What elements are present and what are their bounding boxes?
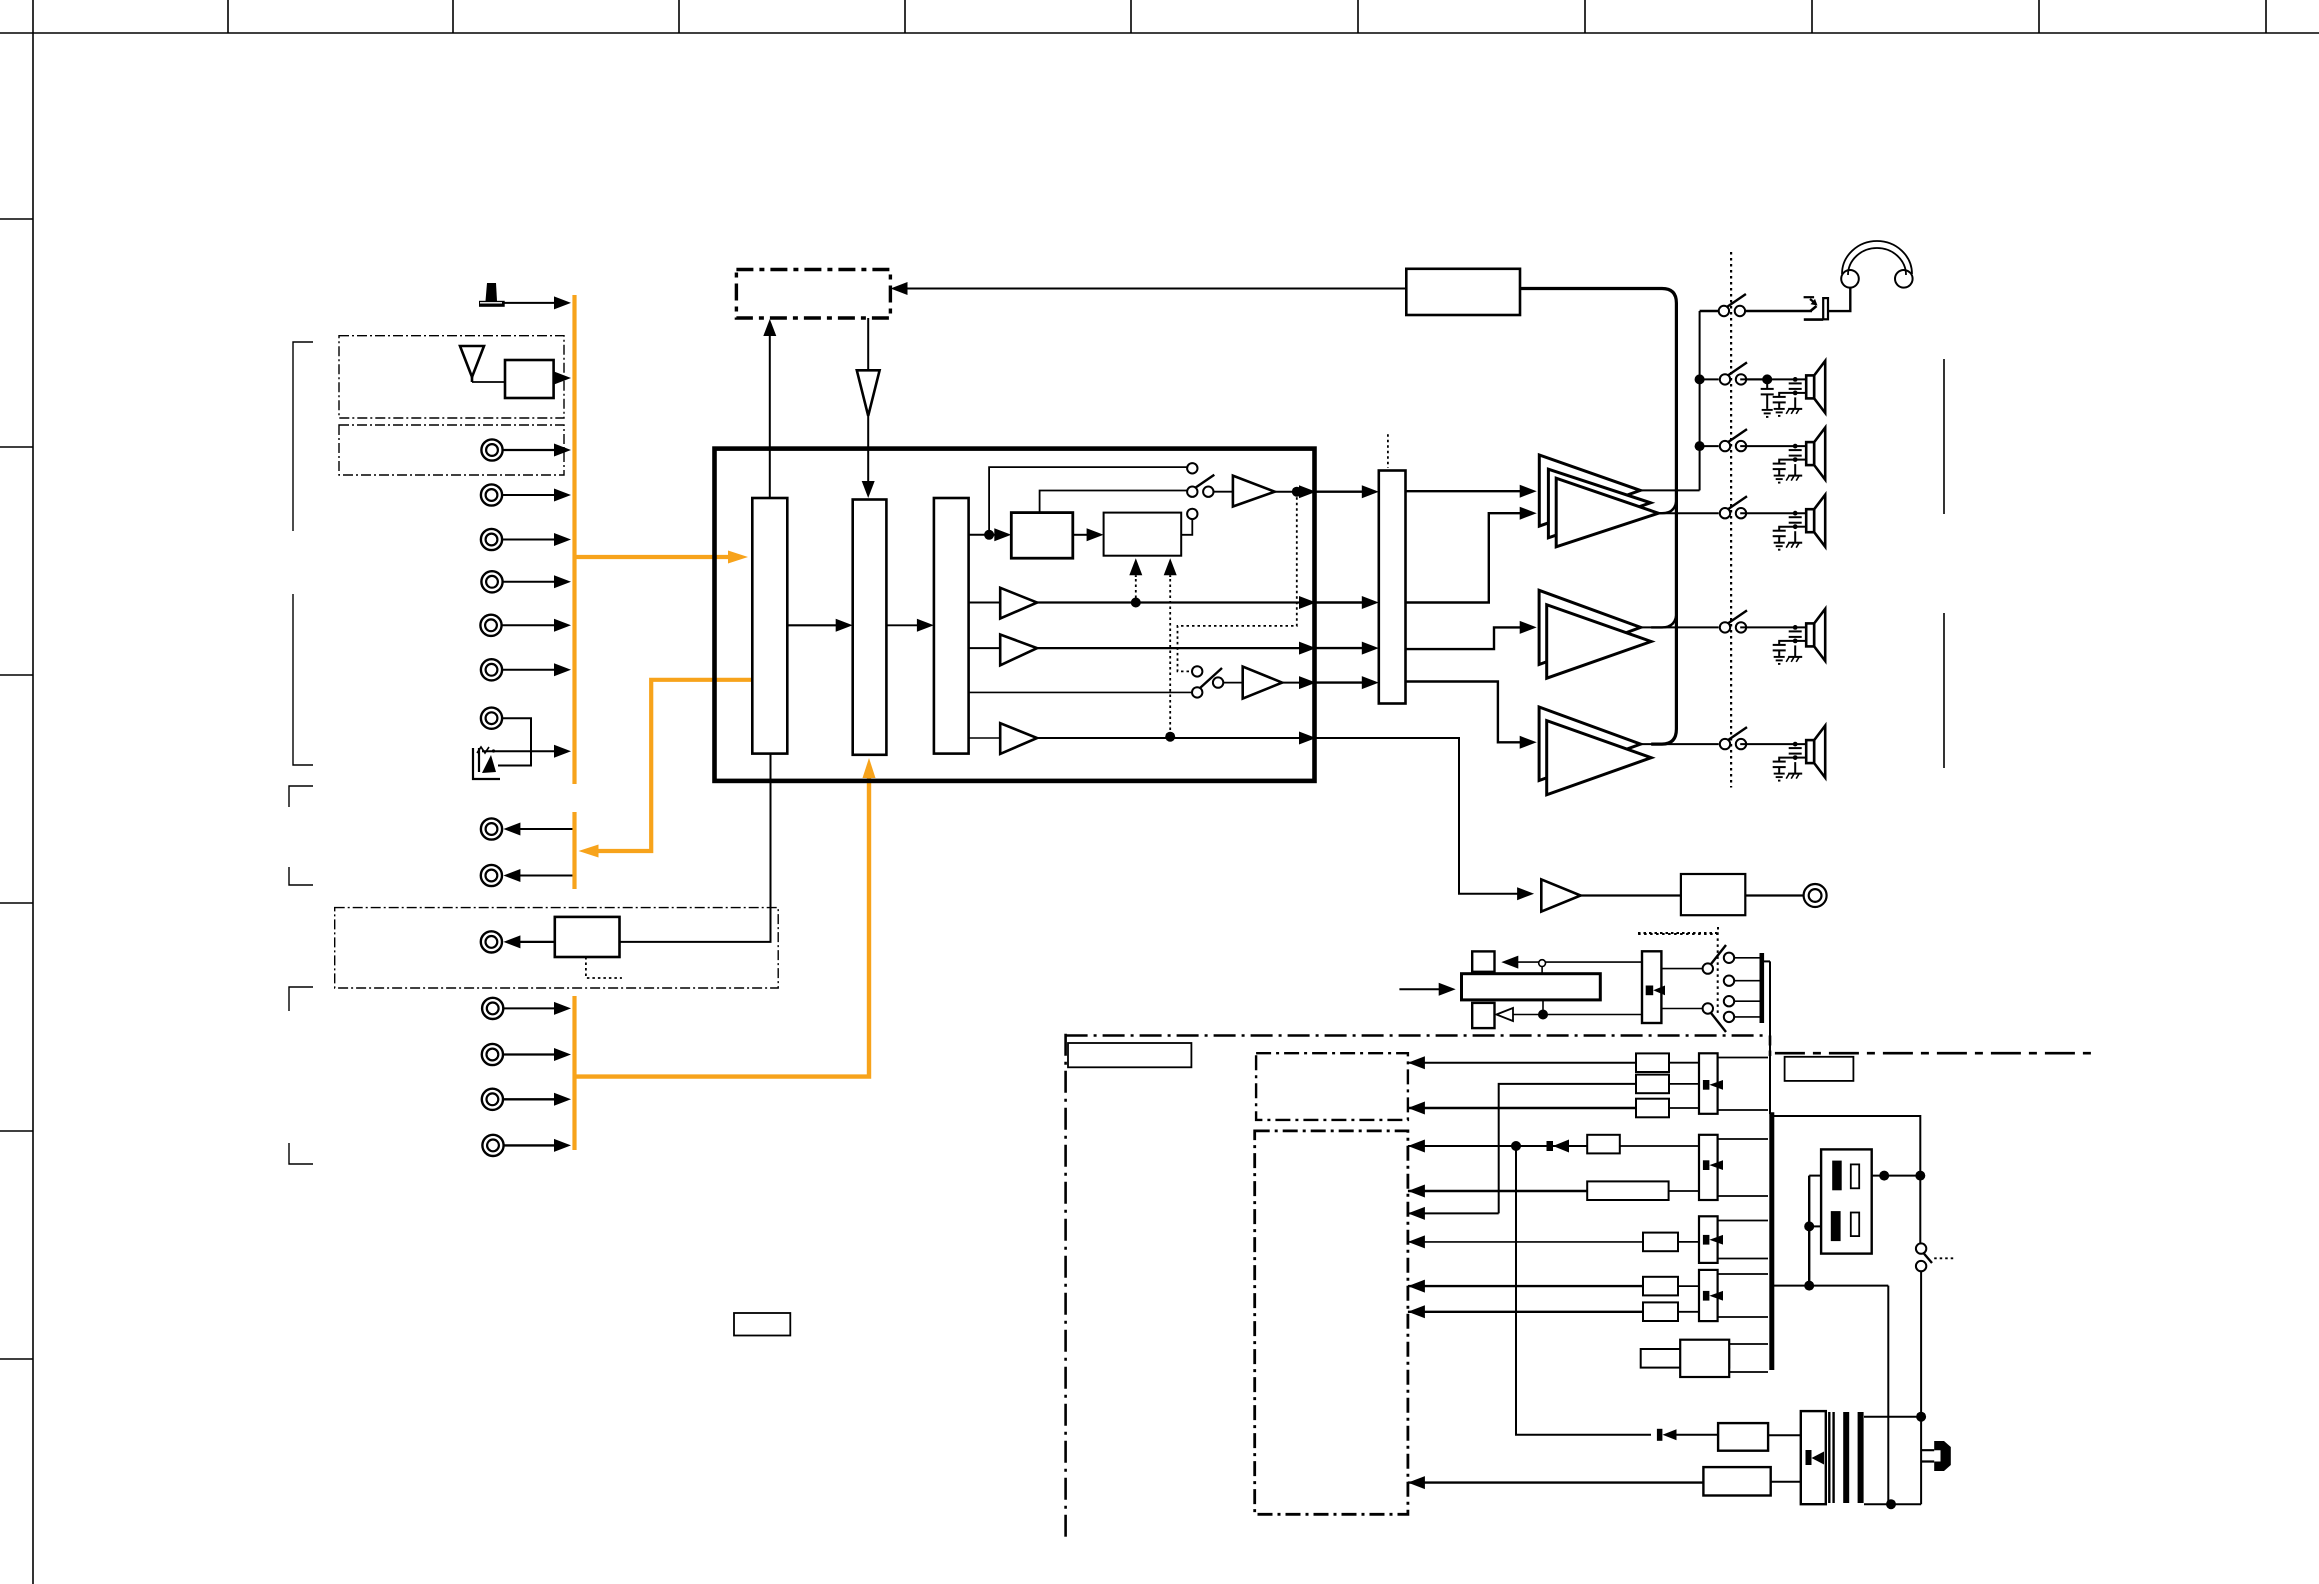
row G bbox=[1408, 1277, 1699, 1296]
transformer secondary loop bbox=[1864, 1417, 1921, 1505]
winding F bbox=[1718, 1221, 1768, 1259]
key square bbox=[1472, 1003, 1494, 1028]
bus merge amp2 bbox=[1651, 612, 1676, 627]
bridge left vertical bbox=[1808, 1176, 1810, 1286]
SECTION: speaker outputs bbox=[1641, 359, 1944, 781]
dotted stub under lpf bbox=[1638, 932, 1718, 934]
buffer ch1 bbox=[1233, 476, 1275, 507]
dash-dot box main supply bbox=[1255, 1131, 1408, 1514]
transformer diode bbox=[1806, 1450, 1825, 1465]
wire to display square bbox=[1516, 961, 1642, 963]
relay surround back speaker bbox=[1720, 727, 1747, 749]
tick top 2 bbox=[452, 0, 454, 33]
decoder block A bbox=[1011, 513, 1073, 559]
secondary bus bar bbox=[1769, 1112, 1774, 1370]
tick left 3 bbox=[0, 674, 33, 676]
wire node up to bypass contact bbox=[989, 467, 1187, 535]
bracket group 4 top bbox=[289, 987, 313, 1011]
remote switch 1 bbox=[1703, 963, 1713, 973]
wire vol out 4 to amp3 bbox=[1406, 682, 1522, 743]
wire to surround relay bbox=[1641, 626, 1719, 628]
speaker network center bbox=[1740, 495, 1825, 550]
wire sw from dsp bbox=[1316, 738, 1521, 894]
wire buffer to lpf bbox=[1581, 894, 1681, 896]
switch2 bbox=[1192, 687, 1202, 697]
speaker feedback bus bbox=[1520, 289, 1676, 745]
dotted bypass path bbox=[1178, 492, 1297, 672]
bracket group 4 bottom bbox=[289, 1143, 313, 1164]
wire switch2 to buffer C bbox=[1223, 682, 1242, 684]
psu boundary top bbox=[1066, 1034, 1768, 1037]
psu boundary right bbox=[1775, 1052, 2095, 1055]
wire buffer1 to out bbox=[1275, 491, 1316, 493]
arrows into blockB bottom bbox=[1129, 558, 1142, 575]
border top bbox=[0, 32, 2319, 34]
psu label box bbox=[1068, 1043, 1191, 1067]
headphone symbol bbox=[1841, 241, 1912, 288]
dash-dot box tuner lower bbox=[339, 425, 564, 475]
tape-head symbol bbox=[473, 747, 500, 779]
tuner block bbox=[505, 360, 554, 398]
lpf block bbox=[1681, 874, 1745, 915]
psu label box right bbox=[1785, 1057, 1854, 1081]
row E bbox=[1408, 1207, 1499, 1220]
hp switch bbox=[1719, 294, 1746, 316]
wire C to volume block bbox=[1316, 676, 1379, 689]
relay surround speaker bbox=[1720, 610, 1747, 632]
wire phono block to selector riser bbox=[620, 754, 771, 942]
SECTION: speaker bus + protection bbox=[1406, 252, 1731, 788]
SECTION: display / system top bbox=[736, 270, 1406, 499]
wire display box down to volume bar bbox=[867, 318, 869, 370]
row C bbox=[1408, 1135, 1699, 1154]
switch2 upper contact bbox=[1192, 666, 1202, 676]
relay center speaker bbox=[1720, 496, 1747, 518]
diode primary feed bbox=[1657, 1429, 1677, 1441]
tick top 1 bbox=[227, 0, 229, 33]
heater block pair bbox=[1641, 1349, 1730, 1368]
row D bbox=[1408, 1181, 1699, 1200]
wire vol out 1 to amp1 bbox=[1406, 490, 1522, 492]
orange wire main into selector bbox=[576, 555, 733, 559]
diode CD bbox=[1703, 1160, 1723, 1170]
wire from protection to display box bbox=[906, 288, 1406, 290]
wire bar top to bridge bbox=[1772, 1116, 1921, 1176]
wire tape to bus bbox=[482, 750, 556, 752]
diode AB bbox=[1703, 1080, 1723, 1090]
dotted mute control line bbox=[1730, 252, 1732, 788]
sw out jack bbox=[1804, 884, 1827, 907]
tick left 4 bbox=[0, 902, 33, 904]
relay speakers B bbox=[1720, 429, 1747, 451]
row F bbox=[1408, 1233, 1699, 1252]
speaker network B bbox=[1740, 428, 1825, 483]
SECTION: orange bus bbox=[575, 295, 870, 1150]
node after buffer1 bbox=[1292, 487, 1302, 497]
wire lpf to jack bbox=[1745, 894, 1803, 896]
dotted control to blockB right bbox=[1169, 579, 1171, 737]
wire C node down to primary feed bbox=[1516, 1146, 1651, 1435]
contact bus bar bbox=[1760, 953, 1765, 1023]
jack line in 2 bbox=[481, 484, 502, 505]
wire L to volume block bbox=[1316, 596, 1379, 609]
wire switch to hp jack bbox=[1744, 310, 1812, 312]
winding GH bbox=[1718, 1274, 1768, 1317]
orange arrow into dsp bbox=[863, 758, 876, 778]
tick left 6 bbox=[0, 1358, 33, 1360]
node key row bbox=[1538, 1010, 1548, 1020]
microphone symbol bbox=[479, 283, 505, 307]
tick left 1 bbox=[0, 218, 33, 220]
bridge top wires bbox=[1872, 1175, 1921, 1177]
blockB output contact bbox=[1187, 509, 1197, 519]
transformer primary bbox=[1801, 1411, 1826, 1504]
buffer C bbox=[1243, 667, 1282, 699]
antenna bbox=[460, 346, 484, 382]
input selector bar bbox=[752, 498, 787, 754]
wire C row to switch2 bbox=[969, 691, 1192, 693]
dash-dot box standby bbox=[1256, 1053, 1408, 1120]
wire C out bbox=[1282, 682, 1316, 684]
wire L row bbox=[969, 602, 1001, 604]
hollow arrow into key square bbox=[1496, 1008, 1513, 1021]
wire dsp to surround decoder bbox=[969, 534, 996, 536]
wire selector bottom to phono riser (inside box) bbox=[770, 754, 772, 781]
tick top 7 bbox=[1584, 0, 1586, 33]
wire jack7 down to tape node bbox=[498, 718, 531, 765]
dotted remote line bbox=[1638, 934, 1718, 1015]
rectifier block F bbox=[1699, 1216, 1718, 1263]
wire SW row bbox=[969, 737, 1001, 739]
power amp surround (2 stacked) bbox=[1539, 590, 1651, 678]
bus segment 1 bbox=[572, 295, 576, 784]
wire key row bbox=[1513, 1014, 1642, 1016]
diode GH bbox=[1703, 1291, 1723, 1301]
bar bottom to bridge bottom bbox=[1772, 1285, 1889, 1287]
phono eq block bbox=[555, 917, 620, 957]
wire vol out 3 to amp2 bbox=[1406, 627, 1522, 649]
bracket group 3 top bbox=[289, 786, 313, 807]
wire to speakers A relay bbox=[1700, 378, 1719, 380]
rectifier block CD bbox=[1699, 1135, 1718, 1200]
contact wires to bus bar bbox=[1734, 957, 1760, 959]
border left bbox=[32, 0, 34, 1584]
dsp bar bbox=[934, 498, 969, 754]
node on SW row bbox=[1165, 732, 1175, 742]
tick top 9 bbox=[2038, 0, 2040, 33]
SECTION: power supply bbox=[1066, 961, 2095, 1542]
wire jack to headphone bbox=[1828, 288, 1850, 311]
wire to hp switch bbox=[1700, 310, 1719, 312]
wire to speakers B relay bbox=[1700, 445, 1719, 447]
SECTION: left inputs bbox=[289, 283, 790, 1336]
bracket group 1 bbox=[293, 342, 313, 531]
node before decoder bbox=[984, 530, 994, 540]
wire A to B bbox=[1073, 534, 1088, 536]
primary filter box 1 bbox=[1718, 1423, 1768, 1451]
speaker network surround bbox=[1740, 609, 1825, 664]
dash-dot display box bbox=[736, 270, 890, 319]
bridge cap block bbox=[1821, 1149, 1872, 1253]
winding CD bbox=[1718, 1139, 1768, 1196]
jack line in 5 bbox=[480, 615, 501, 636]
res bar 1 bbox=[1851, 1164, 1859, 1188]
primary filter box 2 bbox=[1703, 1467, 1770, 1495]
wire to center relay bbox=[1658, 512, 1718, 514]
legend box bottom bbox=[734, 1313, 790, 1336]
buffer R bbox=[1000, 635, 1037, 666]
bracket group 2 bbox=[293, 594, 313, 765]
bypass upper contact bbox=[1187, 463, 1197, 473]
protection block bbox=[1406, 269, 1520, 315]
SECTION: headphone bbox=[1700, 241, 1913, 320]
psu boundary left bbox=[1064, 1034, 1067, 1543]
row B bbox=[1408, 1099, 1699, 1118]
wire ch1 to volume block bbox=[1316, 485, 1379, 498]
transformer core bbox=[1829, 1412, 1860, 1503]
wire R to volume block bbox=[1316, 642, 1379, 655]
volume bar bbox=[853, 500, 887, 755]
main block outline bbox=[715, 449, 1315, 781]
orange arrow into selector bbox=[728, 551, 748, 564]
row A : wire + fuse + winding bbox=[1408, 1053, 1699, 1072]
res bar 2 bbox=[1851, 1213, 1859, 1237]
power amp main (3 stacked) bbox=[1539, 455, 1658, 547]
jack line in 1 bbox=[481, 439, 502, 460]
tick left 2 bbox=[0, 446, 33, 448]
dotted switch link bbox=[1934, 1257, 1954, 1259]
wire into system cpu bbox=[1399, 988, 1440, 990]
wire amp1 upper output bbox=[1640, 489, 1699, 491]
diode F bbox=[1703, 1235, 1723, 1245]
power switch bbox=[1916, 1243, 1926, 1253]
display square bbox=[1472, 951, 1494, 971]
cap bar 2 bbox=[1831, 1211, 1841, 1241]
decoder block B bbox=[1104, 513, 1182, 556]
SECTION: volume + power amps bbox=[1316, 434, 1658, 795]
jack line in 10 bbox=[482, 1089, 503, 1110]
headphone tap riser bbox=[1699, 311, 1701, 490]
remote switch 2 bbox=[1703, 1003, 1713, 1013]
orange trunk wire bbox=[576, 776, 869, 1077]
bracket right 1 bbox=[1943, 359, 1945, 514]
jack line in 6 bbox=[481, 659, 502, 680]
wire attenuator to dsp bar bbox=[867, 416, 869, 483]
SECTION: main dsp box bbox=[715, 449, 1317, 781]
node on L row bbox=[1131, 598, 1141, 608]
wire tuner to bus bbox=[554, 377, 556, 379]
wire antenna to tuner bbox=[472, 381, 505, 383]
attenuator symbol bbox=[857, 370, 880, 416]
wire driver to sw1 bbox=[1661, 968, 1702, 970]
relay speakers A bbox=[1720, 362, 1747, 384]
node spk B bbox=[1695, 441, 1705, 451]
switch 1 bbox=[1187, 475, 1214, 497]
jack line in 3 bbox=[481, 529, 502, 550]
bus segment 3 bbox=[572, 996, 576, 1150]
dash-dot box tuner upper bbox=[339, 336, 564, 418]
bus merge amp1 bbox=[1658, 498, 1676, 513]
wire down right of bridge bbox=[1887, 1286, 1889, 1505]
wire to surround back relay bbox=[1641, 743, 1719, 745]
rectifier block GH bbox=[1699, 1270, 1718, 1321]
ac plug bbox=[1922, 1441, 1951, 1471]
tick top 4 bbox=[904, 0, 906, 33]
power amp surround back (2 stacked) bbox=[1539, 707, 1651, 795]
psu boundary right step bbox=[1769, 1036, 1772, 1057]
winding AB bbox=[1718, 1058, 1768, 1111]
row A2 middle fuse bbox=[1499, 1075, 1699, 1214]
tick top 3 bbox=[678, 0, 680, 33]
wire switch1 to buffer1 bbox=[1214, 491, 1233, 493]
jack line in 11 bbox=[482, 1135, 503, 1156]
dotted stub under phono block bbox=[586, 957, 622, 978]
wire selector up to display box bbox=[769, 336, 771, 498]
contact node on wire bbox=[1539, 960, 1546, 967]
jack line in 7 bbox=[481, 708, 502, 729]
wire R row bbox=[969, 647, 1001, 649]
jack line in 4 bbox=[481, 571, 502, 592]
tick top 8 bbox=[1811, 0, 1813, 33]
wire volume to dsp bar bbox=[886, 624, 918, 626]
bracket group 3 bottom bbox=[289, 867, 313, 885]
cap bar 1 bbox=[1832, 1161, 1842, 1191]
bracket right 2 bbox=[1943, 613, 1945, 768]
system cpu block bbox=[1462, 974, 1601, 1000]
power switch riser bbox=[1919, 1176, 1921, 1244]
dotted stub above volume bbox=[1387, 434, 1389, 468]
wire blockA top to switch 1 bbox=[1040, 491, 1187, 513]
orange rec wire to selector bbox=[597, 680, 752, 851]
buffer L bbox=[1000, 588, 1037, 619]
sw buffer bbox=[1541, 879, 1580, 911]
wire switch down to transformer bbox=[1920, 1271, 1922, 1504]
tick top 5 bbox=[1130, 0, 1132, 33]
wire blockB right to contact bbox=[1181, 519, 1192, 535]
driver block bbox=[1642, 951, 1661, 1023]
jack line in 8 bbox=[482, 998, 503, 1019]
bus segment 2 bbox=[572, 812, 576, 889]
jack line in 9 bbox=[482, 1044, 503, 1065]
wire vol out 2 to amp1 lower bbox=[1406, 513, 1522, 602]
volume block bbox=[1379, 471, 1406, 704]
winding heater bbox=[1729, 1344, 1768, 1372]
dash-dot box phono bbox=[335, 908, 779, 988]
control bus riser bbox=[1769, 961, 1771, 1114]
diode glyph on driver bbox=[1646, 986, 1665, 996]
speaker network A bbox=[1740, 361, 1825, 417]
dotted control to blockB left bbox=[1135, 579, 1137, 598]
jack line out 1 bbox=[481, 818, 502, 839]
node spk A bbox=[1695, 374, 1705, 384]
row H bbox=[1408, 1302, 1699, 1321]
orange arrow to bus bbox=[579, 845, 599, 858]
speaker network surround back bbox=[1740, 726, 1825, 781]
SECTION: subwoofer out bbox=[1316, 738, 1827, 933]
wire mic to bus bbox=[504, 302, 556, 304]
bottom feed arrow bbox=[1408, 1476, 1425, 1489]
jack line out 2 bbox=[481, 865, 502, 886]
buffer SW bbox=[1000, 723, 1037, 754]
tick top 6 bbox=[1357, 0, 1359, 33]
headphone jack bbox=[1804, 297, 1828, 319]
tick left 5 bbox=[0, 1130, 33, 1132]
SECTION: system control bbox=[1399, 934, 1761, 1032]
phono jack bbox=[481, 931, 502, 952]
rectifier block AB bbox=[1699, 1053, 1718, 1114]
wire driver to sw2 bbox=[1661, 1008, 1702, 1010]
wire selector to volume bar bbox=[787, 624, 837, 626]
tick top 10 bbox=[2265, 0, 2267, 33]
